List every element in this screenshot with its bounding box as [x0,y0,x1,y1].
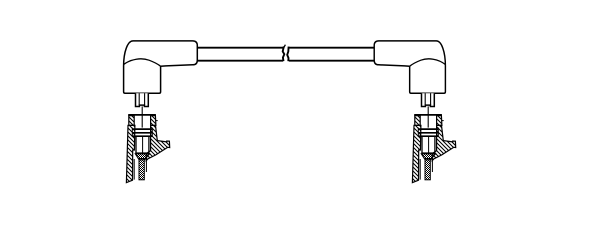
right angled boot connector [374,41,445,93]
cable left segment [197,47,283,49]
right socket section [412,93,455,182]
cable break right jag [287,47,288,62]
cable break left jag [283,46,285,61]
left socket section [126,93,169,182]
cable right segment [289,47,375,49]
left angled boot connector [124,41,198,93]
